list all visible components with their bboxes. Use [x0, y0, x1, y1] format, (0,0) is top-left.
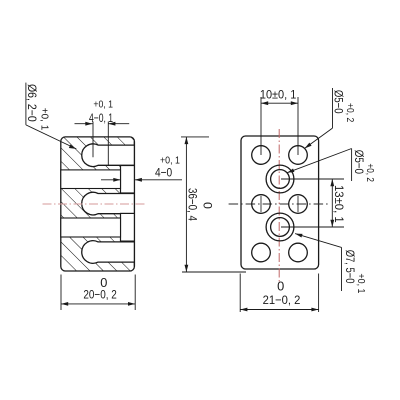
svg-text:20−0, 2: 20−0, 2 — [83, 288, 116, 302]
dimension 4-0 (right slot depth) — [101, 179, 121, 181]
hole top-left — [252, 146, 271, 165]
dimension 36-0,4 (height, right of left view) — [181, 136, 209, 138]
svg-text:Ø6, 2−0: Ø6, 2−0 — [25, 84, 39, 122]
svg-text:0: 0 — [277, 279, 284, 294]
centerline (red) through middle keyhole — [43, 203, 146, 205]
hole top-right — [289, 146, 308, 165]
right edge line of body redrawn — [133, 141, 135, 266]
counterbored hole 1 outer — [266, 165, 294, 193]
hole bottom-right — [289, 243, 308, 262]
keyhole slot 3 (bottom) — [82, 241, 135, 264]
svg-text:+0, 1: +0, 1 — [355, 274, 366, 294]
label leader Ø7,5 counterbore — [295, 234, 341, 248]
body outline with hatching — [61, 137, 135, 271]
hole bottom-left — [252, 243, 271, 262]
label leader Ø6,2 — [25, 83, 27, 125]
hole mid-right — [289, 195, 308, 214]
counterbored hole 2 inner — [271, 218, 290, 237]
horizontal centerline (dark) — [229, 203, 330, 205]
vertical centerline (red) — [278, 129, 280, 283]
counterbored hole 2 outer — [266, 213, 294, 241]
svg-text:0: 0 — [200, 202, 214, 209]
dimension 20-0,2 (bottom width of left view) — [60, 275, 62, 311]
svg-text:Ø5−0: Ø5−0 — [332, 90, 346, 114]
dimension 10±0,1 (top) — [260, 97, 262, 155]
svg-text:+0, 1: +0, 1 — [38, 108, 49, 131]
extension line into keyhole 1 (left) — [92, 122, 94, 158]
hole mid-left — [252, 195, 271, 214]
svg-text:36−0, 4: 36−0, 4 — [185, 188, 199, 221]
svg-text:13±0, 1: 13±0, 1 — [332, 185, 346, 223]
counterbore notch 2 (right face) — [121, 213, 135, 241]
svg-text:+0, 1: +0, 1 — [93, 99, 113, 110]
svg-text:10±0, 1: 10±0, 1 — [260, 88, 296, 102]
plate outline — [241, 136, 319, 269]
keyhole slot 1 (top) — [82, 144, 135, 167]
centerline ticks mid holes — [260, 196, 262, 212]
svg-text:4−0, 1: 4−0, 1 — [89, 111, 113, 125]
svg-text:4−0: 4−0 — [155, 166, 172, 180]
keyhole slot 2 (middle) — [82, 192, 135, 215]
svg-text:+0, 2: +0, 2 — [344, 103, 355, 123]
svg-text:21−0, 2: 21−0, 2 — [263, 293, 301, 307]
dimension 4-0,1 (top of left view) — [75, 123, 93, 125]
dimension 13±0,1 (right, vertical) — [281, 178, 344, 180]
svg-text:+0, 2: +0, 2 — [364, 164, 375, 183]
slit slot 2 (from left face) — [61, 218, 121, 237]
counterbored hole 1 inner — [271, 170, 290, 189]
counterbore notch 1 (right face) — [121, 166, 135, 194]
svg-text:Ø7, 5−0: Ø7, 5−0 — [343, 250, 357, 284]
extension line into keyhole 1 (right) — [107, 122, 109, 166]
svg-text:Ø5−0: Ø5−0 — [352, 150, 366, 174]
label leader Ø5 counterbore inner — [287, 149, 352, 173]
slit slot 1 (from left face) — [61, 170, 121, 189]
label leader Ø5 top holes — [332, 88, 334, 128]
dimension 21-0,2 (bottom width of right view) — [239, 274, 241, 313]
